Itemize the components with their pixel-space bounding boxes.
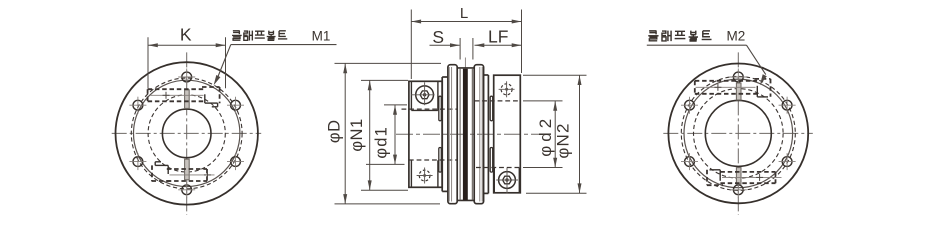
flange 1 xyxy=(448,65,457,204)
center spacer block xyxy=(457,67,474,69)
L dimension line xyxy=(411,21,521,23)
outer flange circle B xyxy=(668,63,808,203)
clamp slit (bottom) left view xyxy=(185,159,190,180)
K dimension line xyxy=(148,44,226,46)
phi D extension lines xyxy=(335,62,442,64)
M2 label underline xyxy=(647,44,747,46)
svg-text:φd1: φd1 xyxy=(373,126,391,159)
flange neck 1 xyxy=(441,77,443,191)
M2 leader arrow xyxy=(760,74,767,85)
M1 leader arrow xyxy=(214,75,221,85)
S extension tick left xyxy=(459,38,461,60)
disc bolt B1 xyxy=(733,72,743,82)
hub 1 (left) outline xyxy=(409,81,442,187)
phi d1 arrow bottom xyxy=(393,155,397,165)
disc bolt B4 xyxy=(733,185,743,195)
disc bolt A1 xyxy=(182,72,192,82)
bolt circle (dashed) B xyxy=(681,76,795,190)
centerline horizontal B xyxy=(663,132,813,134)
svg-text:M2: M2 xyxy=(727,29,746,44)
main horizontal centerline xyxy=(396,133,540,135)
clamp bolt head M2 (section, bottom-right) xyxy=(499,172,516,189)
disc bolt A4 xyxy=(182,185,192,195)
hub 1 bottom notch box xyxy=(410,160,412,187)
phi N1 arrow bottom xyxy=(368,180,372,190)
svg-text:φN2: φN2 xyxy=(553,122,572,158)
hub OD circle A xyxy=(134,80,240,186)
disc pack (dark) xyxy=(463,69,468,200)
K arrow left xyxy=(148,43,158,47)
phi N1 dimension line xyxy=(369,80,371,190)
clamp bolt thread M2 (hidden, top-right) xyxy=(501,84,512,95)
phi N2 arrow bottom xyxy=(578,183,582,193)
clamp slit (top) right view xyxy=(736,83,741,100)
phi D arrow top xyxy=(343,63,347,73)
svg-text:φD: φD xyxy=(325,119,343,143)
phi N1 arrow top xyxy=(368,80,372,90)
svg-text:φd2: φd2 xyxy=(536,115,555,157)
disc bolt A2 xyxy=(231,100,241,110)
clamp bolt head M1 (section, top-left) xyxy=(416,86,434,104)
L extension line left xyxy=(410,10,412,80)
L arrow right xyxy=(512,20,522,24)
flange neck 2 xyxy=(487,75,489,193)
center mark above disc pack xyxy=(464,58,466,69)
clamp bolt circle (dashed) B xyxy=(694,89,784,179)
clamp bolt thread M1 (hidden, bottom-left) xyxy=(419,170,430,181)
clamp bolt M1 head pocket (top) xyxy=(202,86,220,88)
phi d1 extension lines xyxy=(384,104,407,106)
clamp slit (bottom) right view xyxy=(736,168,741,185)
clamp slit (top) left view xyxy=(185,90,190,109)
spacer face line left (S) xyxy=(459,68,461,201)
centerline vertical B xyxy=(737,52,739,215)
hub 1 clamp slit (bottom) xyxy=(439,148,442,173)
disc bolt B6 xyxy=(685,100,695,110)
clamp bolt M2 axis line (top) xyxy=(696,86,756,88)
phi d2 extension lines xyxy=(523,100,563,102)
M2 leader line xyxy=(747,45,766,74)
svg-text:LF: LF xyxy=(488,27,508,47)
clamp bolt circle (dashed) A xyxy=(148,95,225,172)
bottom clamp bolt hole (hidden) left view xyxy=(167,168,207,170)
svg-text:S: S xyxy=(432,27,444,47)
hub 1 clamp slit (top) xyxy=(439,96,442,121)
spacer face line right (S) xyxy=(471,68,473,201)
disc bolt B3 xyxy=(782,157,792,167)
bottom clamp bolt axis line right view xyxy=(722,176,782,178)
L arrow left xyxy=(411,20,421,24)
phi d1 dimension line xyxy=(394,105,396,164)
bottom clamp bolt head pocket right view xyxy=(707,184,723,186)
phi D arrow bottom xyxy=(343,194,347,204)
phi N2 extension lines xyxy=(523,74,587,76)
S arrow xyxy=(450,43,460,47)
svg-text:K: K xyxy=(180,25,192,45)
label clamp bolt M2 (Korean) xyxy=(648,31,658,41)
M1 leader line xyxy=(218,45,231,78)
hub 2 (right) outline xyxy=(494,75,521,193)
phi d2 dimension line xyxy=(554,101,556,168)
bottom clamp bolt axis line left view xyxy=(170,174,215,176)
S dimension leader xyxy=(430,44,460,46)
svg-text:M1: M1 xyxy=(312,28,331,43)
bore d2 hidden lines xyxy=(475,100,521,102)
clamp bolt M1 hole (top, hidden) xyxy=(148,88,206,90)
phi N1 extension lines xyxy=(361,79,408,81)
S extension tick right xyxy=(472,38,474,60)
hub 2 clamp slit (bottom) xyxy=(490,148,493,173)
L extension line right xyxy=(521,10,523,74)
hub 2 clamp slit (top) xyxy=(490,96,493,121)
disc bolt B5 xyxy=(685,157,695,167)
outer flange circle A xyxy=(116,62,258,204)
bore d1 hidden lines xyxy=(402,108,458,110)
phi N2 arrow top xyxy=(578,75,582,85)
clamp bolt M2 hole (top, hidden) right view xyxy=(695,80,757,82)
bore circle A xyxy=(162,109,211,158)
M1 label underline xyxy=(231,44,337,46)
disc bolt A3 xyxy=(231,157,241,167)
K dimension extension line left xyxy=(147,37,149,88)
hub 2 bottom notch box xyxy=(493,168,495,193)
bore circle B xyxy=(705,100,771,166)
bottom clamp bolt hole (hidden) right view xyxy=(720,171,775,173)
hub OD circle B xyxy=(684,79,793,188)
phi D dimension line xyxy=(344,63,346,204)
LF arrow left xyxy=(475,43,485,47)
K dimension extension line right xyxy=(225,37,227,88)
disc bolt A5 xyxy=(133,157,143,167)
disc bolt A6 xyxy=(133,100,143,110)
phi d1 arrow top xyxy=(393,105,397,115)
flange 2 xyxy=(474,65,483,204)
phi N2 dimension line xyxy=(579,75,581,193)
disc bolt B2 xyxy=(782,100,792,110)
svg-text:L: L xyxy=(460,5,468,22)
bolt circle (dashed) A xyxy=(131,78,242,189)
centerline vertical A xyxy=(186,52,188,215)
K arrow right xyxy=(216,43,226,47)
label clamp bolt M1 (Korean) xyxy=(232,31,242,40)
bottom clamp bolt head pocket left view xyxy=(152,180,172,182)
clamp bolt M2 head pocket (top) right view xyxy=(755,78,771,80)
LF arrow right xyxy=(512,43,522,47)
LF dimension line xyxy=(475,44,522,46)
phi d2 arrow bottom xyxy=(553,158,557,168)
centerline horizontal A xyxy=(112,132,262,134)
hub 1 top notch box xyxy=(410,81,412,110)
phi d2 arrow top xyxy=(553,101,557,111)
svg-text:φN1: φN1 xyxy=(348,118,366,151)
clamp bolt M1 axis line (top) xyxy=(151,94,204,96)
